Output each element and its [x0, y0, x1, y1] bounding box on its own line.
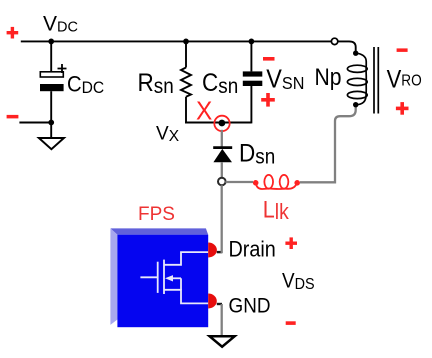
pin Drain bump	[208, 243, 217, 258]
capacitor Csn	[243, 71, 262, 86]
node VX circled junction	[214, 116, 229, 131]
node junction Csn top	[249, 39, 255, 45]
FPS U1 body top bevel	[110, 228, 208, 234]
wire Csn top lead	[250, 41, 252, 71]
wire GND stub	[217, 303, 222, 305]
svg-text:FPS: FPS	[138, 204, 175, 225]
wire drain lead	[221, 185, 223, 253]
label + (VDS)	[285, 237, 297, 249]
mosfet body-diode arrow	[165, 275, 173, 281]
wire CDC top lead	[50, 41, 52, 71]
node junction CDC top	[48, 39, 54, 45]
FPS U1 body left bevel	[110, 228, 117, 325]
transformer primary winding Np	[347, 53, 367, 104]
wire top rail to primary	[338, 41, 356, 53]
diode Dsn	[213, 148, 232, 163]
label + (VDC rail polarity)	[7, 27, 19, 39]
ground (DC bus)	[39, 138, 64, 149]
svg-text:X: X	[196, 97, 212, 126]
svg-text:Llk: Llk	[263, 195, 290, 224]
node junction Rsn top	[183, 39, 189, 45]
wire DC negative stub	[19, 122, 51, 124]
node primary top dot	[353, 51, 358, 56]
resistor Rsn	[181, 68, 191, 97]
node primary bottom dot	[353, 102, 358, 107]
label - (VRO)	[397, 48, 408, 52]
wire Rsn top lead	[185, 41, 187, 67]
wire drain stub	[217, 251, 222, 253]
capacitor CDC	[40, 64, 67, 91]
wire Csn bottom lead	[250, 86, 252, 123]
FPS U1 body face	[117, 235, 208, 328]
wire diode anode lead	[221, 130, 223, 147]
wire Llk left lead	[225, 181, 253, 183]
label - (VSN)	[263, 57, 275, 61]
wire top rail	[21, 40, 332, 42]
mosfet Q inside FPS	[140, 252, 208, 303]
transformer core	[374, 47, 378, 114]
label - (VDS)	[286, 321, 296, 325]
node open junction (Llk / drain)	[218, 178, 226, 186]
inductor Llk	[253, 175, 300, 189]
label - (DC bus negative)	[7, 115, 19, 119]
label + (VRO)	[396, 102, 409, 115]
wire Llk right to transformer	[300, 105, 356, 183]
pin GND bump	[208, 294, 217, 309]
svg-text:Np: Np	[315, 64, 342, 91]
wire diode cathode lead	[221, 162, 223, 178]
ground (FPS GND)	[210, 336, 235, 346]
wire CDC bottom lead	[50, 91, 52, 138]
svg-text:GND: GND	[229, 295, 271, 318]
svg-text:Drain: Drain	[229, 238, 276, 262]
label + (VSN)	[261, 93, 275, 107]
node junction CDC bottom	[48, 120, 54, 126]
wire GND lead	[221, 304, 223, 336]
wire snubber bottom	[185, 122, 251, 124]
node open (primary top)	[331, 38, 337, 44]
wire Rsn bottom lead	[185, 97, 187, 124]
